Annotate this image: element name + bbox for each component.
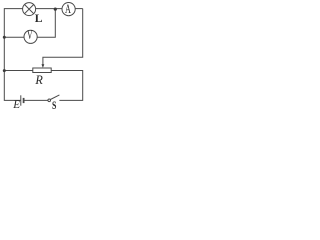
svg-text:S: S (52, 98, 57, 110)
svg-text:R: R (34, 73, 43, 87)
svg-text:A: A (65, 2, 71, 16)
svg-text:L: L (35, 12, 43, 25)
svg-text:E: E (12, 99, 20, 110)
svg-text:V: V (27, 28, 33, 42)
